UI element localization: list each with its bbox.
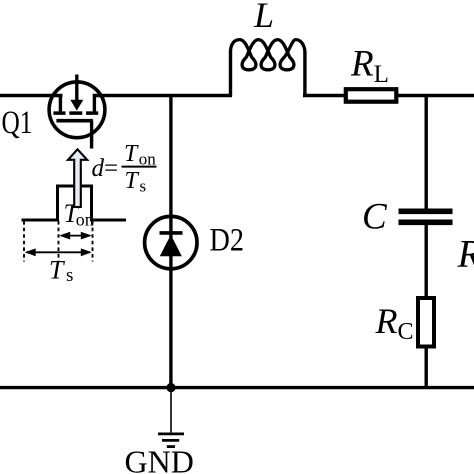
svg-text:D2: D2 xyxy=(210,223,245,259)
svg-text:T: T xyxy=(49,256,65,285)
inductor L xyxy=(231,40,305,96)
ground xyxy=(158,388,184,447)
dimension arrow Ts xyxy=(25,248,92,256)
dashed extension line middle xyxy=(58,221,60,262)
dashed extension line left xyxy=(23,221,25,262)
svg-text:d=: d= xyxy=(92,155,119,182)
wire output branch vertical xyxy=(425,96,428,210)
svg-text:on: on xyxy=(139,150,157,169)
svg-text:T: T xyxy=(125,168,140,194)
wire D2 branch xyxy=(169,96,172,388)
svg-text:GND: GND xyxy=(125,443,194,474)
wire top rail left segment xyxy=(0,94,63,98)
diode D2 xyxy=(145,216,197,268)
svg-text:R: R xyxy=(457,233,474,276)
dimension arrow Ton xyxy=(59,232,92,240)
wire top rail middle segment xyxy=(93,94,232,98)
node ground junction xyxy=(166,383,175,392)
svg-text:on: on xyxy=(76,210,94,230)
svg-text:s: s xyxy=(140,177,147,196)
duty-cycle arrow xyxy=(68,149,87,207)
wire RC to bottom rail xyxy=(425,347,428,388)
dashed extension line right xyxy=(92,221,94,262)
gate pulse waveform xyxy=(22,186,127,220)
svg-text:T: T xyxy=(124,141,139,167)
wire top rail right segment xyxy=(303,94,346,98)
svg-text:Q1: Q1 xyxy=(2,105,33,141)
wire capacitor to RC xyxy=(425,225,428,298)
resistor RC xyxy=(418,298,434,347)
wire bottom rail xyxy=(0,386,474,389)
transistor Q1 xyxy=(49,75,105,149)
svg-text:C: C xyxy=(362,197,388,238)
wire top rail to right edge xyxy=(396,94,474,98)
resistor RL xyxy=(346,89,397,102)
capacitor C xyxy=(399,209,453,215)
svg-text:s: s xyxy=(66,265,73,286)
svg-text:L: L xyxy=(253,0,274,35)
fraction bar xyxy=(122,166,157,168)
